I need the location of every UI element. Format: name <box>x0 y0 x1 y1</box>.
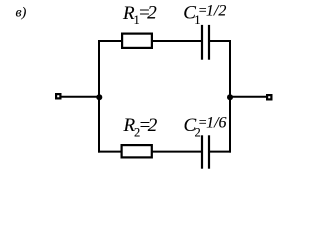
wire: left vertical (node A branch riser) <box>98 40 100 153</box>
label R2=2 <box>123 115 158 140</box>
resistor R2 <box>122 145 152 157</box>
label C1=1/2 <box>183 2 226 27</box>
wire: R2 to C2 <box>152 151 203 153</box>
capacitor C1 <box>202 25 209 60</box>
svg-text:в): в) <box>16 5 27 20</box>
svg-text:1/2: 1/2 <box>206 3 226 20</box>
node A junction dot <box>96 94 102 100</box>
label C2=1/6 <box>184 115 227 140</box>
wire: node B to right terminal <box>230 96 268 98</box>
wire: R1 to C1 <box>152 40 203 42</box>
svg-text:1/6: 1/6 <box>206 115 226 132</box>
wire: right vertical (riser through node B) <box>229 40 231 153</box>
label R1=2 <box>122 2 157 27</box>
right terminal <box>267 95 271 99</box>
wire: bottom-left corner to R2 <box>98 151 122 153</box>
wire: top-left corner to R1 <box>98 40 123 42</box>
svg-text:2: 2 <box>148 115 158 136</box>
node B junction dot <box>227 94 233 100</box>
svg-text:2: 2 <box>147 2 157 23</box>
wire: C1 to top-right corner <box>209 40 231 42</box>
wire: C2 to bottom-right corner <box>209 151 231 153</box>
capacitor C2 <box>202 135 209 168</box>
resistor R1 <box>122 34 152 48</box>
wire: left terminal to node A <box>60 96 99 98</box>
left terminal <box>56 94 60 98</box>
